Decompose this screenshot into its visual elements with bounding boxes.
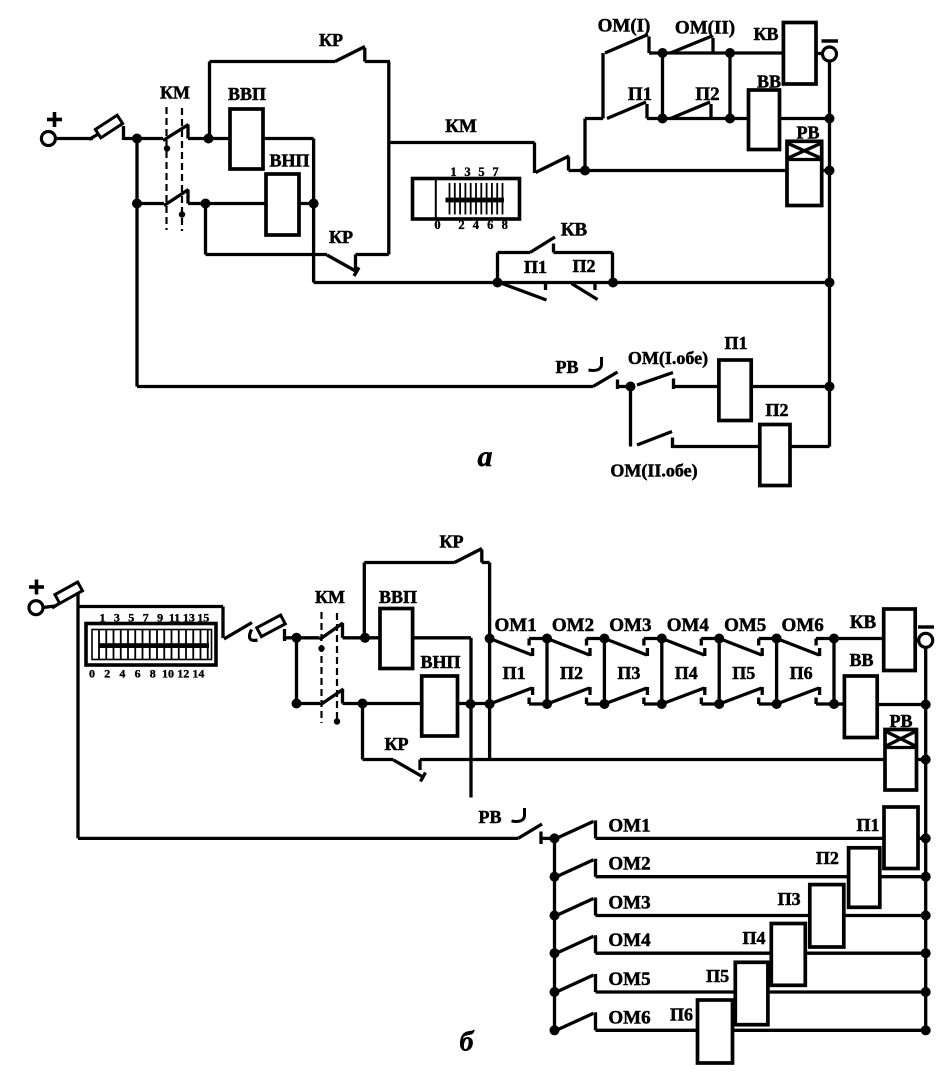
svg-text:ОМ1: ОМ1: [608, 815, 650, 836]
svg-text:0: 0: [89, 667, 95, 681]
svg-text:П6: П6: [670, 1005, 693, 1025]
svg-text:12: 12: [177, 667, 189, 681]
svg-text:КМ: КМ: [160, 83, 190, 103]
svg-text:П1: П1: [503, 663, 526, 683]
svg-text:ВВП: ВВП: [379, 587, 417, 607]
svg-text:4: 4: [473, 218, 480, 232]
svg-text:ОМ(II.обе): ОМ(II.обе): [610, 461, 697, 482]
svg-text:ОМ5: ОМ5: [724, 615, 766, 636]
svg-text:2: 2: [104, 667, 110, 681]
svg-text:ВВ: ВВ: [849, 650, 873, 670]
svg-text:11: 11: [169, 611, 180, 625]
svg-text:ОМ(II): ОМ(II): [675, 18, 735, 39]
svg-text:3: 3: [464, 165, 470, 179]
svg-text:ОМ4: ОМ4: [608, 930, 651, 951]
svg-text:14: 14: [192, 667, 204, 681]
svg-text:ВВ: ВВ: [757, 72, 781, 92]
svg-text:8: 8: [502, 218, 508, 232]
svg-text:П1: П1: [724, 333, 747, 353]
svg-text:4: 4: [119, 667, 125, 681]
svg-text:П2: П2: [695, 84, 719, 105]
svg-text:П2: П2: [560, 663, 583, 683]
svg-text:13: 13: [183, 611, 195, 625]
svg-text:5: 5: [128, 611, 134, 625]
svg-text:6: 6: [135, 667, 141, 681]
svg-text:ВНП: ВНП: [420, 652, 460, 672]
svg-text:ОМ6: ОМ6: [608, 1007, 650, 1028]
svg-text:КР: КР: [384, 734, 408, 754]
svg-text:П6: П6: [790, 663, 813, 683]
svg-text:10: 10: [162, 667, 174, 681]
svg-text:КВ: КВ: [561, 220, 588, 241]
svg-text:П3: П3: [617, 663, 640, 683]
svg-text:ОМ5: ОМ5: [608, 969, 650, 990]
svg-text:9: 9: [157, 611, 163, 625]
svg-text:6: 6: [487, 218, 493, 232]
svg-text:ОМ(I.обе): ОМ(I.обе): [628, 348, 708, 369]
svg-text:КВ: КВ: [850, 612, 877, 633]
svg-text:ОМ2: ОМ2: [608, 854, 650, 875]
svg-text:7: 7: [492, 165, 498, 179]
svg-text:ОМ4: ОМ4: [667, 615, 710, 636]
svg-text:П2: П2: [572, 256, 595, 276]
svg-text:П5: П5: [732, 663, 755, 683]
svg-text:ОМ3: ОМ3: [608, 893, 650, 914]
svg-text:1: 1: [100, 611, 106, 625]
svg-text:б: б: [460, 1027, 475, 1058]
svg-text:15: 15: [197, 611, 209, 625]
svg-text:П2: П2: [765, 400, 788, 420]
svg-text:П1: П1: [628, 84, 652, 105]
svg-text:КМ: КМ: [315, 587, 345, 607]
svg-text:8: 8: [150, 667, 156, 681]
svg-text:ВНП: ВНП: [269, 151, 309, 171]
svg-text:а: а: [478, 440, 493, 473]
svg-text:ОМ3: ОМ3: [609, 615, 651, 636]
svg-text:1: 1: [450, 165, 456, 179]
svg-text:ОМ1: ОМ1: [494, 615, 536, 636]
svg-text:П4: П4: [742, 928, 765, 948]
svg-text:РВ: РВ: [889, 711, 912, 731]
svg-text:П4: П4: [675, 663, 698, 683]
svg-text:РВ: РВ: [555, 357, 578, 377]
svg-text:3: 3: [114, 611, 120, 625]
svg-text:РВ: РВ: [796, 123, 819, 143]
svg-text:2: 2: [458, 218, 464, 232]
svg-text:П2: П2: [816, 848, 839, 868]
svg-text:7: 7: [143, 611, 149, 625]
svg-text:ВВП: ВВП: [228, 84, 266, 104]
svg-text:КВ: КВ: [753, 24, 778, 44]
svg-text:РВ: РВ: [478, 807, 501, 827]
svg-text:5: 5: [478, 165, 484, 179]
svg-text:П3: П3: [778, 889, 801, 909]
svg-text:ОМ(I): ОМ(I): [598, 16, 651, 37]
svg-text:П1: П1: [524, 257, 547, 277]
svg-text:П5: П5: [706, 966, 729, 986]
svg-text:ОМ6: ОМ6: [781, 615, 823, 636]
svg-text:П1: П1: [856, 815, 879, 835]
svg-text:КР: КР: [329, 227, 353, 247]
svg-text:КМ: КМ: [445, 116, 477, 137]
svg-text:КР: КР: [439, 532, 463, 552]
svg-text:0: 0: [434, 218, 440, 232]
svg-text:ОМ2: ОМ2: [552, 615, 594, 636]
svg-text:КР: КР: [319, 30, 343, 50]
